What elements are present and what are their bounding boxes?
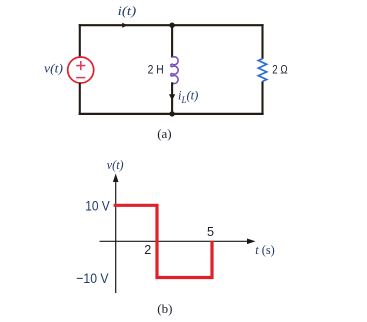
wire right branch lower (261, 81, 263, 115)
current arrow iL(t) down (169, 94, 175, 100)
voltage source V1 (68, 57, 94, 83)
inductor L1 2H (171, 57, 178, 84)
node A top junction (169, 23, 174, 28)
svg-text:2 Ω: 2 Ω (272, 63, 287, 77)
svg-text:i(t): i(t) (118, 3, 137, 18)
svg-text:2 H: 2 H (148, 63, 164, 77)
resistor R1 2ohm (258, 59, 266, 82)
current arrow i(t) on top rail (122, 23, 127, 28)
svg-text:(a): (a) (157, 126, 171, 141)
node B bottom junction (169, 111, 174, 116)
x-axis t (100, 239, 256, 245)
wire right branch upper (261, 24, 263, 59)
svg-text:v(t): v(t) (44, 61, 63, 76)
svg-text:10 V: 10 V (85, 199, 110, 215)
wire middle branch lower (171, 82, 173, 115)
wire bottom rail (79, 113, 264, 115)
svg-text:5: 5 (207, 225, 214, 239)
svg-text:(b): (b) (157, 301, 172, 316)
svg-text:v(t): v(t) (107, 157, 124, 172)
y-axis v(t) (113, 174, 119, 294)
svg-text:iL(t): iL(t) (178, 89, 198, 106)
wire top rail (79, 24, 264, 26)
wire left branch upper (79, 24, 81, 57)
svg-text:2: 2 (144, 243, 151, 257)
wire middle branch upper (171, 25, 173, 57)
svg-text:t (s): t (s) (255, 242, 274, 257)
wire left branch lower (79, 83, 81, 115)
waveform v(t) square wave (114, 205, 212, 277)
svg-text:−10 V: −10 V (76, 271, 109, 287)
